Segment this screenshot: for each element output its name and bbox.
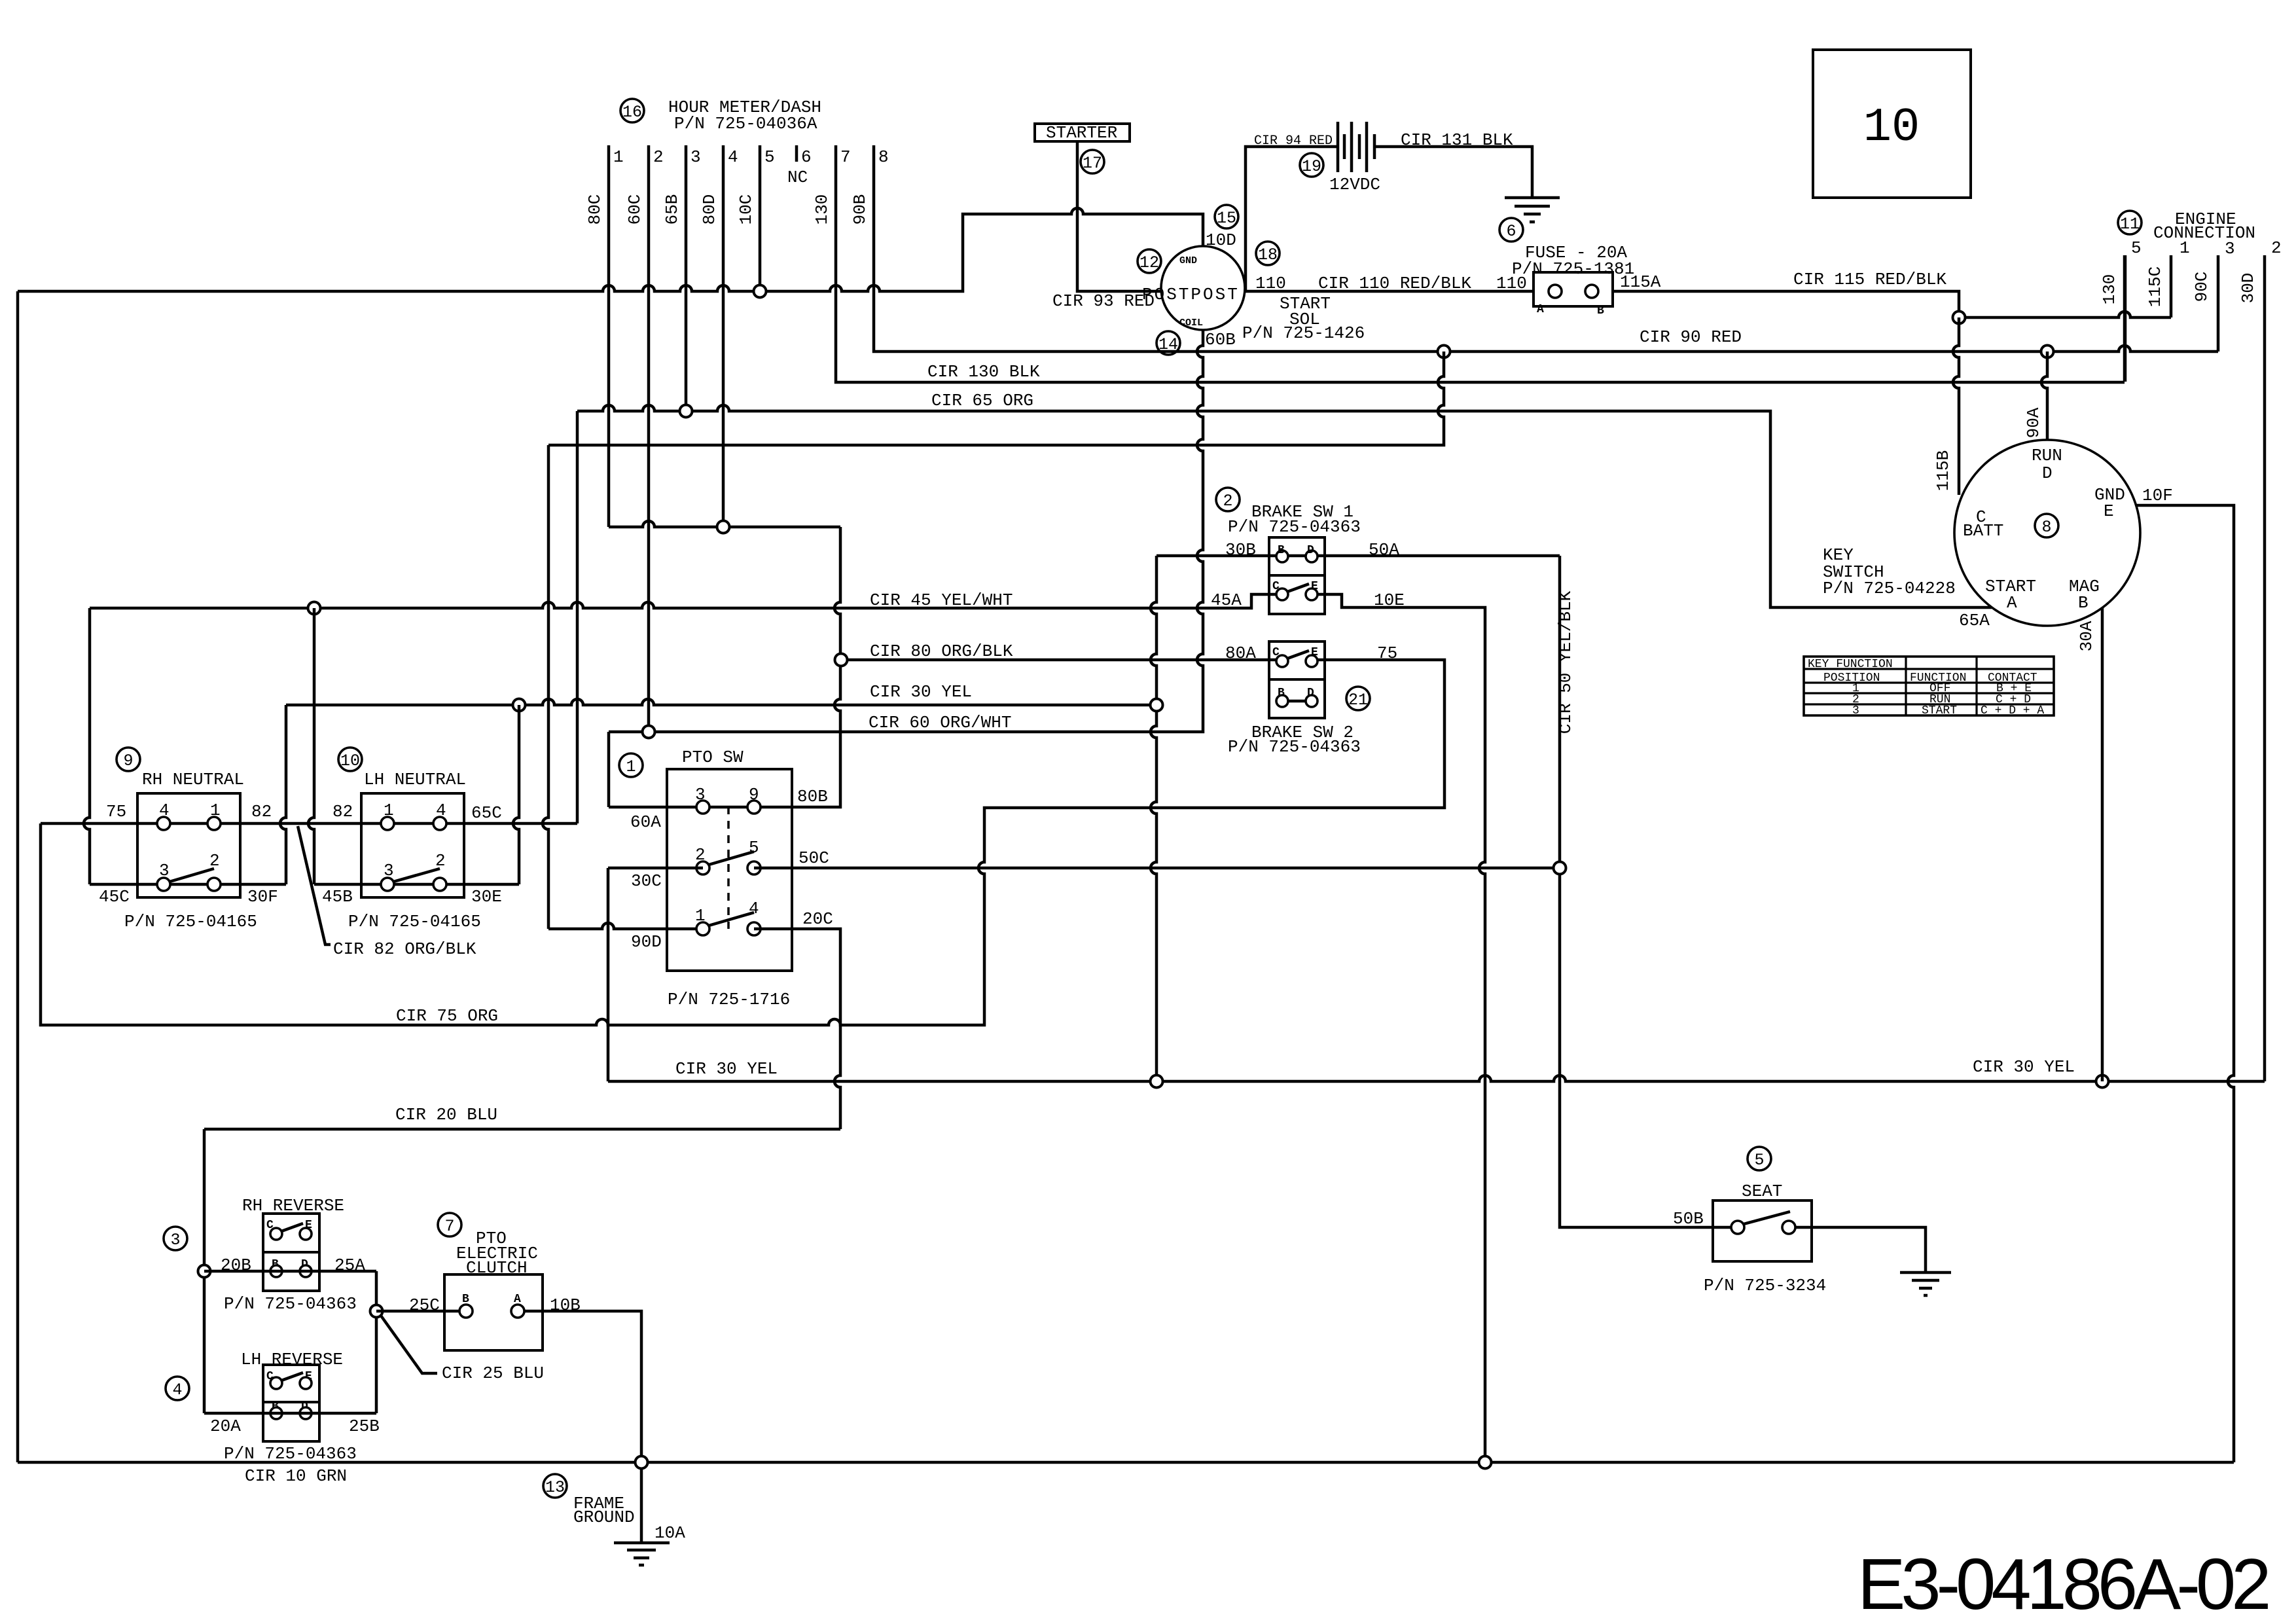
svg-text:75: 75 — [106, 802, 126, 821]
engine pin 1 wire (115C) — [2170, 255, 2173, 317]
svg-text:P/N 725-04228: P/N 725-04228 — [1823, 579, 1956, 598]
balloon 5 — [1748, 1147, 1771, 1170]
svg-text:3: 3 — [695, 785, 706, 804]
switch S1 PTO SW body — [667, 769, 792, 971]
svg-text:20B: 20B — [221, 1255, 251, 1275]
svg-text:3: 3 — [159, 861, 170, 880]
balloon 18 — [1256, 242, 1280, 265]
wire 115C branch — [1959, 312, 2171, 317]
svg-text:80D: 80D — [700, 194, 719, 225]
wire 30B/50A row — [1157, 554, 1560, 558]
switch S5 SEAT — [1713, 1200, 1812, 1261]
svg-text:CIR 110 RED/BLK: CIR 110 RED/BLK — [1318, 274, 1471, 293]
wire 10E from brake sw1 E — [1318, 594, 1485, 1462]
wire 2 (60C) — [647, 145, 651, 732]
svg-text:1: 1 — [695, 906, 706, 926]
svg-text:1: 1 — [384, 801, 394, 820]
svg-text:115B: 115B — [1933, 450, 1953, 491]
svg-text:RH NEUTRAL: RH NEUTRAL — [142, 770, 244, 789]
svg-text:P/N 725-04165: P/N 725-04165 — [124, 912, 257, 931]
node 30 junction lower — [1151, 1075, 1163, 1088]
svg-text:CIR 94 RED: CIR 94 RED — [1254, 134, 1333, 149]
svg-text:3: 3 — [1852, 704, 1859, 717]
svg-text:30D: 30D — [2238, 273, 2258, 304]
svg-text:60C: 60C — [625, 194, 645, 225]
svg-text:CIR 10 GRN: CIR 10 GRN — [245, 1466, 347, 1486]
svg-text:8: 8 — [878, 147, 889, 167]
balloon 14 — [1157, 331, 1180, 355]
balloon 3 — [164, 1227, 187, 1250]
wire CIR 75 ORG long route — [41, 660, 1444, 1025]
svg-text:P/N 725-04036A: P/N 725-04036A — [674, 114, 817, 134]
svg-text:NC: NC — [787, 168, 808, 187]
svg-text:13: 13 — [545, 1478, 565, 1497]
page box 10 — [1813, 50, 1971, 198]
balloon 15 — [1215, 205, 1238, 228]
node 115 junction — [1953, 312, 1965, 324]
wire CIR 30 YEL upper bus — [286, 699, 1149, 705]
svg-text:CIR 60 ORG/WHT: CIR 60 ORG/WHT — [869, 713, 1011, 732]
wire 30C riser down to lower 30 bus — [607, 868, 610, 1081]
wire 80 line (80C/80D collector) — [609, 521, 840, 527]
svg-text:30A: 30A — [2077, 621, 2096, 651]
wire B-D link — [1288, 700, 1306, 703]
svg-text:10: 10 — [340, 751, 360, 770]
node 10B junction — [636, 1456, 648, 1469]
svg-text:CIR 130 BLK: CIR 130 BLK — [927, 362, 1040, 382]
wire 30A from key MAG — [2101, 607, 2104, 1081]
svg-text:7: 7 — [444, 1217, 454, 1236]
wire RH bottom row 45C-30F — [90, 883, 286, 886]
wire 65C riser — [576, 411, 579, 823]
svg-text:START: START — [1922, 704, 1957, 717]
wire 3 (65B) — [685, 145, 688, 411]
svg-text:45A: 45A — [1211, 590, 1242, 610]
table KEY FUNCTION — [1804, 657, 2054, 715]
svg-text:3: 3 — [691, 147, 701, 167]
svg-text:P/N 725-1426: P/N 725-1426 — [1242, 323, 1365, 343]
svg-text:5: 5 — [1754, 1151, 1764, 1170]
svg-text:CIR 93 RED: CIR 93 RED — [1052, 291, 1155, 311]
svg-text:11: 11 — [2120, 215, 2140, 234]
svg-text:20C: 20C — [802, 909, 833, 929]
wire 20B-25A row — [204, 1270, 376, 1273]
svg-text:9: 9 — [749, 785, 759, 804]
leader CIR 25 BLU — [381, 1316, 437, 1373]
svg-text:B: B — [1278, 544, 1285, 557]
svg-text:D: D — [1307, 544, 1314, 557]
svg-text:2: 2 — [1223, 492, 1232, 511]
svg-text:90A: 90A — [2024, 407, 2043, 438]
wire 45C drop — [84, 608, 90, 884]
svg-text:30E: 30E — [471, 887, 502, 907]
switch S2 BRAKE SW 1 — [1269, 537, 1325, 614]
svg-text:115C: 115C — [2145, 266, 2165, 307]
svg-text:45C: 45C — [99, 887, 130, 907]
wire 75/82/65C top row — [41, 822, 577, 825]
svg-text:30B: 30B — [1225, 540, 1256, 560]
wire battery positive CIR 94 RED — [1246, 147, 1338, 291]
wire 30C row left — [608, 867, 703, 870]
leader CIR 82 ORG/BLK — [298, 826, 331, 945]
svg-text:P/N 725-1716: P/N 725-1716 — [668, 990, 790, 1009]
balloon 1 — [619, 753, 643, 777]
node 10C junction — [754, 285, 766, 298]
svg-text:CONNECTION: CONNECTION — [2153, 223, 2255, 243]
svg-text:80B: 80B — [797, 787, 828, 806]
node 80 junction — [835, 654, 848, 666]
balloon 19 — [1300, 153, 1323, 177]
node 20B junction — [198, 1265, 211, 1278]
balloon 4 — [166, 1377, 189, 1400]
node 65B junction — [680, 405, 692, 418]
wire seat to ground — [1795, 1227, 1926, 1272]
svg-text:115A: 115A — [1620, 272, 1661, 292]
svg-text:POSTPOST: POSTPOST — [1142, 285, 1240, 304]
wire 90D row into PTO — [548, 923, 703, 929]
svg-text:50C: 50C — [798, 848, 829, 868]
svg-text:110: 110 — [1255, 274, 1286, 293]
wire 60B coil descender — [1197, 329, 1203, 732]
svg-text:12: 12 — [1139, 253, 1159, 272]
svg-text:82: 82 — [251, 802, 272, 821]
node 60C junction — [643, 726, 655, 738]
clutch L7 PTO ELECTRIC CLUTCH — [444, 1274, 543, 1350]
svg-text:P/N 725-1381: P/N 725-1381 — [1512, 259, 1634, 279]
svg-text:80C: 80C — [585, 194, 605, 225]
svg-text:CIR 20 BLU: CIR 20 BLU — [395, 1105, 497, 1125]
svg-text:82: 82 — [332, 802, 353, 821]
svg-text:LH REVERSE: LH REVERSE — [241, 1350, 343, 1369]
svg-text:D: D — [2042, 463, 2053, 483]
svg-text:5: 5 — [2131, 238, 2142, 258]
switch S21 BRAKE SW 2 — [1269, 641, 1325, 718]
svg-text:2: 2 — [435, 851, 446, 871]
svg-text:2: 2 — [2271, 238, 2282, 258]
svg-text:5: 5 — [749, 838, 759, 857]
wire LH bottom row 45B-30E — [314, 883, 519, 886]
svg-text:4: 4 — [749, 899, 759, 918]
ground battery — [1505, 198, 1560, 222]
wire circuit 10 bus: left border + 10C line + step up + 10D into solenoid — [18, 208, 1203, 1462]
svg-text:CIR 90 RED: CIR 90 RED — [1640, 327, 1742, 347]
wire 10B — [524, 1311, 641, 1543]
wire CIR 131 BLK — [1374, 147, 1532, 198]
svg-text:RUN: RUN — [2032, 446, 2062, 465]
svg-text:CIR 30 YEL: CIR 30 YEL — [675, 1059, 778, 1079]
ground seat — [1900, 1272, 1951, 1295]
wire CIR 60 ORG/WHT — [609, 731, 1202, 734]
svg-text:4: 4 — [172, 1380, 182, 1399]
svg-text:3: 3 — [2225, 239, 2235, 259]
switch S4 LH REVERSE — [263, 1365, 319, 1441]
ground frame — [614, 1543, 670, 1565]
svg-text:CIR 131 BLK: CIR 131 BLK — [1401, 130, 1513, 150]
wire CIR 65 ORG bus + 65A to key — [577, 405, 1992, 607]
wire CIR 30 YEL lower bus — [608, 1075, 2265, 1081]
svg-text:90D: 90D — [631, 932, 662, 952]
wire CIR 50 YEL/BLK vertical — [1560, 556, 1731, 1227]
svg-text:CIR 25 BLU: CIR 25 BLU — [442, 1363, 544, 1383]
svg-text:75: 75 — [1377, 643, 1397, 663]
svg-text:1: 1 — [626, 757, 636, 776]
svg-text:E3-04186A-02: E3-04186A-02 — [1857, 1544, 2268, 1624]
svg-text:SEAT: SEAT — [1742, 1182, 1782, 1201]
wire CIR 115 RED/BLK fuse to engine — [1613, 291, 1959, 317]
svg-text:60B: 60B — [1205, 330, 1236, 350]
svg-text:GROUND: GROUND — [573, 1507, 635, 1527]
wire 6 stub NC — [795, 145, 798, 162]
balloon 17 — [1081, 150, 1104, 173]
fuse F6 body — [1534, 272, 1613, 306]
node 30 junction upper — [1151, 699, 1163, 712]
wire 30 link vertical 1767 — [1151, 556, 1157, 1081]
svg-text:130: 130 — [812, 194, 832, 225]
svg-text:50B: 50B — [1673, 1209, 1704, 1229]
balloon 7 — [438, 1213, 461, 1236]
svg-text:A: A — [2007, 593, 2017, 613]
svg-text:1: 1 — [210, 801, 221, 820]
svg-text:10C: 10C — [736, 194, 756, 225]
switch S10 LH NEUTRAL — [338, 748, 362, 771]
svg-text:30C: 30C — [631, 871, 662, 891]
battery B19 plates — [1338, 122, 1367, 172]
node 45B junction — [308, 602, 321, 615]
svg-text:25B: 25B — [349, 1416, 380, 1436]
svg-text:16: 16 — [622, 103, 642, 122]
wire 4 (80D) — [722, 145, 725, 527]
svg-text:CIR 30 YEL: CIR 30 YEL — [870, 682, 972, 702]
svg-text:10F: 10F — [2142, 486, 2173, 505]
svg-text:P/N 725-04363: P/N 725-04363 — [224, 1444, 357, 1464]
svg-text:C + D + A: C + D + A — [1981, 704, 2044, 717]
svg-text:50A: 50A — [1369, 540, 1399, 560]
balloon 13 — [543, 1474, 567, 1498]
svg-text:GND: GND — [1179, 255, 1197, 266]
node 90 junction at 2206 — [1438, 346, 1450, 358]
balloon 12 — [1138, 249, 1161, 273]
svg-text:P/N 725-3234: P/N 725-3234 — [1704, 1276, 1826, 1295]
svg-text:10E: 10E — [1374, 590, 1405, 610]
svg-text:10B: 10B — [550, 1295, 581, 1315]
node 50C junction — [1554, 862, 1566, 875]
svg-text:65C: 65C — [471, 803, 502, 823]
svg-text:12VDC: 12VDC — [1329, 175, 1380, 194]
svg-text:65A: 65A — [1959, 611, 1990, 630]
wire 90 branch loop (junction 2206 down, left, down to PTO 90D) — [543, 352, 1444, 929]
svg-text:8: 8 — [2041, 518, 2051, 537]
svg-text:19: 19 — [1302, 157, 1321, 176]
svg-text:P/N 725-04165: P/N 725-04165 — [348, 912, 481, 931]
wire CIR 80 ORG/BLK to brake sw 2 — [841, 659, 1276, 662]
svg-text:9: 9 — [123, 751, 133, 770]
engine pin 3 wire (90C) — [2217, 255, 2220, 352]
svg-text:110: 110 — [1496, 274, 1527, 293]
wire CIR 10 GRN — [18, 1461, 2234, 1464]
svg-text:BATT: BATT — [1963, 521, 2003, 541]
svg-text:60A: 60A — [630, 812, 661, 832]
wire 115B down to key switch — [1953, 317, 1959, 495]
svg-text:3: 3 — [170, 1231, 180, 1250]
svg-text:LH NEUTRAL: LH NEUTRAL — [364, 770, 466, 789]
wire 80 descender to PTO 80B row — [609, 527, 840, 807]
svg-text:90C: 90C — [2192, 272, 2212, 302]
svg-text:18: 18 — [1258, 245, 1278, 264]
svg-text:CIR 50 YEL/BLK: CIR 50 YEL/BLK — [1556, 590, 1575, 734]
balloon 2 — [1216, 488, 1240, 511]
svg-text:E: E — [2104, 501, 2114, 521]
svg-text:10: 10 — [1863, 101, 1920, 154]
engine pin 5 wire (130) — [2124, 255, 2127, 382]
connector U16 hour meter balloon — [620, 99, 644, 122]
wire 25A-25B link riser — [375, 1271, 378, 1413]
svg-text:2: 2 — [695, 845, 706, 865]
node 90A junction at 3128 — [2041, 346, 2054, 358]
svg-text:21: 21 — [1348, 691, 1368, 710]
wire 110 bus solenoid to fuse — [1246, 290, 1534, 293]
svg-text:STARTER: STARTER — [1046, 123, 1117, 143]
svg-text:2: 2 — [653, 147, 664, 167]
wire CIR 90 RED bus (90B) — [874, 145, 2218, 352]
svg-text:1: 1 — [613, 147, 624, 167]
solenoid K12 start solenoid circle — [1161, 246, 1245, 330]
svg-text:4: 4 — [436, 801, 446, 820]
svg-text:130: 130 — [2100, 274, 2119, 305]
node 10E junction — [1479, 1456, 1492, 1469]
svg-text:25A: 25A — [334, 1255, 365, 1275]
svg-text:P/N 725-04363: P/N 725-04363 — [1228, 737, 1361, 757]
node 30A junction — [2096, 1075, 2109, 1088]
svg-text:45B: 45B — [322, 887, 353, 907]
svg-text:CIR 80 ORG/BLK: CIR 80 ORG/BLK — [870, 641, 1013, 661]
svg-text:CIR 30 YEL: CIR 30 YEL — [1973, 1057, 2075, 1077]
svg-text:30F: 30F — [247, 887, 278, 907]
node 30E junction — [513, 699, 526, 712]
wire 1 (80C) — [607, 145, 611, 527]
wire CIR 130 BLK bus — [836, 145, 2125, 382]
svg-text:3: 3 — [384, 861, 394, 880]
svg-text:CIR 75 ORG: CIR 75 ORG — [396, 1006, 498, 1026]
wire starter down / CIR 93 RED — [1077, 141, 1161, 291]
wire 5 (10C) — [759, 145, 762, 291]
starter box — [1035, 124, 1130, 141]
node 25C junction — [370, 1305, 383, 1318]
svg-text:1: 1 — [2179, 238, 2190, 258]
svg-text:6: 6 — [801, 147, 812, 167]
svg-text:80A: 80A — [1225, 643, 1256, 663]
svg-text:P/N 725-04363: P/N 725-04363 — [1228, 517, 1361, 537]
svg-text:CIR 115 RED/BLK: CIR 115 RED/BLK — [1793, 270, 1946, 289]
svg-text:2: 2 — [209, 851, 220, 871]
balloon 6 — [1499, 218, 1523, 242]
svg-text:25C: 25C — [409, 1295, 440, 1315]
wire 60A riser — [607, 732, 611, 807]
svg-text:B: B — [1597, 304, 1604, 317]
svg-text:A: A — [1537, 303, 1544, 316]
svg-text:COIL: COIL — [1179, 317, 1203, 329]
wire 30F drop — [280, 705, 286, 884]
wire 20C row right and descender — [754, 929, 840, 1129]
svg-text:20A: 20A — [210, 1416, 241, 1436]
node 80D junction — [717, 521, 730, 533]
svg-text:5: 5 — [764, 147, 775, 167]
svg-text:CIR 82 ORG/BLK: CIR 82 ORG/BLK — [333, 939, 476, 959]
key switch S8 circle — [1954, 440, 2140, 626]
wire 45B drop — [308, 608, 314, 884]
wire CIR 20 BLU — [204, 1128, 840, 1131]
wire 90A down to key switch — [2041, 352, 2047, 440]
wire CIR 45 YEL/WHT — [90, 594, 1276, 608]
svg-text:PTO SW: PTO SW — [682, 748, 744, 767]
engine pin 2 wire (30D) — [2263, 255, 2267, 1081]
balloon 11 — [2118, 211, 2142, 234]
PTO row A 60A-80B — [696, 801, 709, 814]
svg-text:4: 4 — [159, 801, 170, 820]
balloon 21 — [1346, 687, 1370, 710]
svg-text:B: B — [2078, 593, 2089, 613]
svg-text:CIR 65 ORG: CIR 65 ORG — [931, 391, 1033, 410]
svg-text:CIR 45 YEL/WHT: CIR 45 YEL/WHT — [870, 590, 1013, 610]
wire 30E drop — [513, 705, 519, 884]
svg-text:7: 7 — [840, 147, 851, 167]
svg-text:6: 6 — [1506, 222, 1516, 241]
svg-text:15: 15 — [1217, 209, 1236, 228]
svg-text:P/N 725-04363: P/N 725-04363 — [224, 1294, 357, 1314]
svg-text:4: 4 — [728, 147, 738, 167]
svg-text:17: 17 — [1083, 154, 1102, 173]
svg-text:KEY FUNCTION: KEY FUNCTION — [1808, 658, 1893, 671]
wire 10F from key GND — [2136, 505, 2234, 1462]
wire 25C — [376, 1310, 459, 1313]
wire 20 drop to reverse switches — [203, 1129, 206, 1413]
svg-text:90B: 90B — [850, 194, 870, 225]
PTO row B 30C-50C — [696, 861, 709, 875]
PTO row C 90D-20C — [696, 922, 709, 935]
wire 50C to junction — [754, 867, 1560, 870]
wire 20A-25B row — [204, 1412, 376, 1415]
svg-text:10A: 10A — [655, 1523, 685, 1543]
svg-text:65B: 65B — [662, 194, 682, 225]
switch S9 RH NEUTRAL — [117, 748, 140, 771]
switch S3 RH REVERSE — [263, 1214, 319, 1291]
